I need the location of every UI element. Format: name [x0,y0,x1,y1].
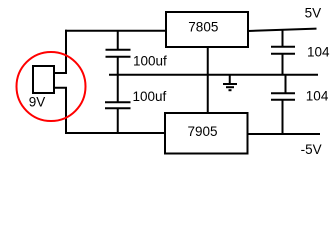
svg-text:7905: 7905 [188,124,218,139]
svg-text:104: 104 [307,45,330,60]
capacitor C3 104 top plate [271,46,295,48]
wire: battery negative terminal stub [54,87,67,89]
ground symbol bar 2 [226,86,234,88]
ground symbol bar 1 [223,83,237,85]
capacitor C1 100uf bottom plate [106,56,131,58]
svg-text:100uf: 100uf [133,89,167,104]
wire: left rail upper segment [65,30,67,73]
svg-text:5V: 5V [305,6,322,21]
wire: C1 to ground rail [117,56,119,76]
wire: 7805 output to 5V node [248,29,317,31]
ground rail [109,74,318,76]
wire: C3 to ground rail [282,53,284,76]
wire: C4 to -5V rail [282,99,284,135]
wire: center ground line 7805 to 7905 [207,47,209,113]
wire: left rail lower segment [65,87,67,134]
wire: bottom rail to 7905 input [65,132,165,134]
capacitor C4 104 top plate [271,92,295,94]
wire: ground rail to C4 [285,74,287,94]
regulator U1 7805 box [166,12,248,47]
capacitor C1 100uf top plate [106,49,131,51]
svg-text:100uf: 100uf [133,53,167,68]
svg-text:7805: 7805 [188,20,218,35]
capacitor C3 104 bottom plate [271,53,295,55]
wire: top rail from battery node to 7805 input [65,30,167,32]
svg-text:104: 104 [306,89,329,104]
ground symbol bar 3 [229,89,232,91]
wire: C2 to bottom rail [117,108,119,134]
ground symbol stem [229,75,231,84]
svg-text:9V: 9V [29,95,46,110]
capacitor C2 100uf bottom plate [105,107,131,109]
wire: 7905 output to -5V node [248,133,320,135]
capacitor C4 104 bottom plate [271,99,295,101]
wire: battery positive terminal stub [54,72,67,74]
wire: ground rail to C2 [117,74,119,103]
svg-text:-5V: -5V [301,142,322,157]
highlight circle around battery (red) [17,52,86,121]
wire: top rail stub to C1 [117,31,119,50]
battery B1 9V body [33,66,54,93]
wire: right rail above C3 [282,29,284,48]
regulator U2 7905 box [165,113,248,154]
capacitor C2 100uf top plate [105,101,131,103]
